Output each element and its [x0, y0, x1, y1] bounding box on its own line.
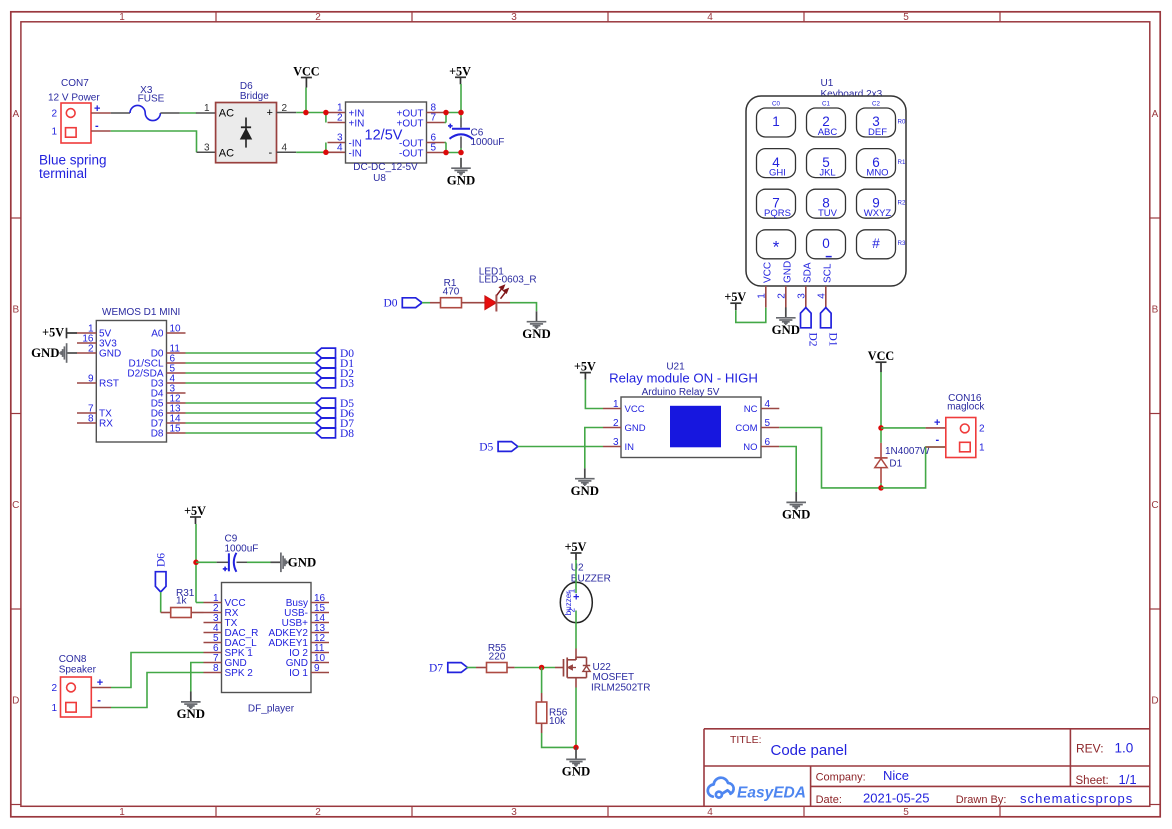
svg-text:DC-DC_12-5V: DC-DC_12-5V	[353, 162, 418, 173]
svg-text:1000uF: 1000uF	[471, 137, 505, 148]
svg-text:2021-05-25: 2021-05-25	[863, 791, 930, 806]
junction dot at source	[573, 745, 579, 751]
key 4	[757, 149, 796, 178]
svg-text:0: 0	[822, 236, 830, 251]
svg-text:+5V: +5V	[574, 360, 596, 374]
svg-text:3: 3	[511, 807, 517, 818]
svg-text:GND: GND	[782, 508, 810, 522]
net port D7 drive	[448, 663, 468, 673]
svg-text:D1: D1	[827, 333, 839, 347]
svg-text:D0: D0	[383, 298, 397, 310]
svg-text:A: A	[12, 109, 19, 120]
wires U8 outputs	[445, 112, 462, 114]
svg-text:NO: NO	[743, 442, 757, 453]
wire gate pulldown R56	[541, 668, 543, 694]
wires WEMOS to ports	[186, 352, 317, 354]
bridge internal diode	[245, 118, 247, 148]
svg-text:WXYZ: WXYZ	[864, 208, 892, 219]
net ports D5-D8	[316, 398, 336, 408]
title block	[704, 728, 1150, 730]
wire relay COM to maglock	[779, 428, 881, 488]
svg-text:2: 2	[777, 293, 788, 299]
net ports D0-D3	[316, 348, 336, 358]
resistor R55 220	[487, 663, 508, 673]
svg-text:R0: R0	[898, 118, 906, 125]
fuse X3	[111, 112, 130, 114]
net port D0 drive	[402, 298, 422, 308]
key 8	[807, 189, 846, 218]
wire bridge pin2 to U8	[296, 112, 327, 114]
svg-text:EasyEDA: EasyEDA	[737, 785, 806, 802]
resistor R31 1k	[171, 608, 192, 618]
svg-text:220: 220	[489, 651, 506, 662]
svg-text:D: D	[1151, 696, 1158, 707]
svg-text:1k: 1k	[176, 596, 188, 607]
svg-text:GND: GND	[447, 173, 475, 187]
svg-text:U2: U2	[571, 562, 584, 573]
wire to CON16 minus	[881, 447, 946, 488]
svg-text:GND: GND	[571, 484, 599, 498]
svg-text:VCC: VCC	[868, 349, 894, 363]
key 2	[807, 108, 846, 137]
svg-text:2: 2	[51, 108, 57, 119]
svg-text:+5V: +5V	[42, 325, 64, 339]
svg-text:10: 10	[170, 323, 182, 334]
svg-text:IRLM2502TR: IRLM2502TR	[591, 682, 650, 693]
svg-text:1: 1	[613, 399, 619, 410]
svg-text:Company:: Company:	[816, 771, 866, 783]
key 0	[807, 230, 846, 259]
wire speaker minus to SPK2	[111, 673, 204, 708]
svg-text:+5V: +5V	[724, 290, 746, 304]
svg-text:3: 3	[204, 143, 210, 154]
svg-text:C0: C0	[772, 100, 780, 107]
svg-text:1N4007W: 1N4007W	[885, 446, 930, 457]
svg-text:2: 2	[88, 343, 94, 354]
key 9	[857, 189, 896, 218]
svg-text:AC: AC	[219, 107, 234, 119]
svg-text:LED-0603_R: LED-0603_R	[479, 275, 537, 286]
resistor R1 470	[441, 298, 462, 308]
svg-text:C: C	[1151, 500, 1158, 511]
svg-text:R3: R3	[898, 240, 906, 247]
svg-text:TUV: TUV	[818, 208, 838, 219]
svg-text:DF_player: DF_player	[248, 703, 295, 714]
svg-text:Arduino Relay 5V: Arduino Relay 5V	[642, 387, 720, 398]
svg-text:1/1: 1/1	[1119, 772, 1137, 787]
svg-text:R2: R2	[898, 200, 906, 207]
svg-text:2: 2	[979, 423, 985, 434]
svg-text:GND: GND	[625, 423, 646, 434]
svg-text:D8: D8	[340, 428, 354, 440]
svg-text:1: 1	[119, 807, 125, 818]
net port D6 drive	[155, 572, 166, 592]
resistor R56 10k	[536, 702, 547, 723]
wire fuse to bridge	[180, 112, 196, 114]
svg-text:JKL: JKL	[819, 167, 835, 178]
wire MOSFET source to ground	[575, 688, 577, 748]
svg-text:VCC: VCC	[762, 262, 773, 283]
svg-text:4: 4	[707, 12, 713, 23]
svg-text:Drawn By:: Drawn By:	[956, 794, 1007, 806]
ground below C6	[460, 158, 462, 168]
svg-text:NC: NC	[744, 404, 758, 415]
svg-text:maglock: maglock	[947, 402, 985, 413]
svg-text:PQRS: PQRS	[764, 208, 791, 219]
svg-text:GND: GND	[288, 556, 316, 570]
svg-text:#: #	[872, 236, 880, 251]
svg-text:-: -	[936, 434, 940, 446]
LED1 LED-0603_R	[485, 296, 496, 309]
svg-text:1: 1	[204, 103, 210, 114]
svg-text:D6: D6	[156, 553, 168, 567]
svg-text:GND: GND	[177, 707, 205, 721]
key *	[757, 230, 796, 259]
svg-text:TITLE:: TITLE:	[730, 734, 762, 746]
svg-text:9: 9	[88, 373, 94, 384]
svg-text:VCC: VCC	[293, 65, 319, 79]
svg-text:1: 1	[568, 588, 577, 593]
wire CON7 pin1 to bridge pin3	[111, 131, 197, 152]
svg-text:15: 15	[170, 423, 182, 434]
ground at keypad	[785, 307, 787, 317]
svg-text:GND: GND	[522, 327, 550, 341]
svg-text:C2: C2	[872, 100, 880, 107]
svg-text:SPK 2: SPK 2	[225, 668, 254, 679]
module WEMOS D1 MINI	[96, 321, 166, 443]
svg-text:470: 470	[443, 286, 460, 297]
svg-text:1: 1	[51, 126, 57, 137]
svg-text:1: 1	[772, 114, 780, 129]
svg-text:10k: 10k	[549, 716, 566, 727]
svg-text:Nice: Nice	[883, 768, 909, 783]
bridge rectifier D6	[216, 103, 277, 163]
svg-text:terminal: terminal	[39, 166, 87, 181]
svg-text:CON7: CON7	[61, 78, 89, 89]
net port D1 at keypad	[821, 308, 832, 328]
svg-text:3: 3	[797, 293, 808, 299]
wire to C9	[196, 561, 217, 563]
capacitor C6 1000uF	[452, 128, 470, 130]
wire bridge pin4 to U8	[296, 151, 327, 153]
svg-text:3: 3	[613, 437, 619, 448]
junction dots maglock net	[878, 425, 884, 431]
svg-text:+5V: +5V	[565, 540, 587, 554]
svg-text:A0: A0	[151, 329, 164, 340]
wire to CON16 plus	[881, 427, 926, 429]
svg-text:GND: GND	[782, 261, 793, 283]
svg-text:-: -	[269, 147, 273, 159]
svg-text:8: 8	[213, 663, 219, 674]
svg-text:RST: RST	[99, 379, 119, 390]
junction dot at C9	[193, 560, 199, 566]
svg-text:Speaker: Speaker	[59, 665, 97, 676]
svg-text:SCL: SCL	[822, 263, 833, 283]
svg-text:GND: GND	[31, 346, 59, 360]
svg-text:1: 1	[979, 442, 985, 453]
svg-text:GND: GND	[562, 765, 590, 779]
net port D2 at keypad	[801, 308, 812, 328]
svg-text:4: 4	[337, 142, 343, 153]
ground at relay	[584, 468, 586, 478]
connector CON16 maglock	[946, 418, 976, 458]
svg-text:RX: RX	[99, 419, 113, 430]
svg-text:DEF: DEF	[868, 127, 887, 138]
svg-text:+: +	[267, 107, 273, 119]
module DF_player	[222, 583, 312, 693]
svg-text:AC: AC	[219, 148, 234, 160]
svg-text:REV:: REV:	[1076, 741, 1104, 755]
svg-text:-IN: -IN	[349, 148, 362, 159]
svg-text:Code panel: Code panel	[771, 742, 848, 759]
wire relay GND pin	[585, 428, 603, 469]
svg-text:-: -	[97, 695, 101, 707]
DC-DC converter U8	[346, 102, 427, 163]
svg-text:12 V Power: 12 V Power	[48, 93, 100, 104]
svg-text:4: 4	[765, 399, 771, 410]
svg-text:4: 4	[817, 293, 828, 299]
net port D5	[498, 442, 518, 452]
svg-text:C: C	[12, 500, 19, 511]
svg-text:Date:: Date:	[816, 794, 842, 806]
svg-text:8: 8	[88, 413, 94, 424]
svg-text:+5V: +5V	[449, 64, 471, 78]
svg-text:R1: R1	[898, 159, 906, 166]
svg-text:12/5V: 12/5V	[365, 128, 403, 144]
pin stubs CON7	[91, 112, 111, 114]
svg-text:9: 9	[314, 663, 320, 674]
ground at relay NO	[795, 492, 797, 502]
ground at WEMOS pin2	[67, 352, 77, 354]
svg-text:GND: GND	[99, 349, 121, 360]
svg-text:ABC: ABC	[818, 127, 838, 138]
svg-text:D7: D7	[429, 662, 443, 674]
svg-text:IO 1: IO 1	[289, 668, 308, 679]
svg-text:WEMOS D1 MINI: WEMOS D1 MINI	[102, 307, 180, 318]
svg-text:SDA: SDA	[802, 262, 813, 283]
svg-text:5: 5	[903, 807, 909, 818]
key 3	[857, 108, 896, 137]
junction dots bridge outputs	[303, 110, 309, 116]
svg-text:D: D	[12, 696, 19, 707]
key 5	[807, 149, 846, 178]
svg-text:IN: IN	[625, 442, 635, 453]
svg-text:U1: U1	[821, 78, 834, 89]
wire relay NO to ground	[779, 447, 796, 493]
bridge output stubs	[277, 112, 297, 114]
key #	[857, 230, 896, 259]
svg-text:D2: D2	[807, 333, 819, 347]
svg-text:-OUT: -OUT	[399, 148, 423, 159]
svg-text:1: 1	[119, 12, 125, 23]
connector CON8 speaker	[61, 677, 92, 717]
wire +5V to DF VCC	[196, 602, 204, 604]
svg-text:FUSE: FUSE	[138, 94, 165, 105]
svg-text:CON8: CON8	[59, 654, 87, 665]
svg-text:5: 5	[765, 418, 771, 429]
keypad bottom pins	[765, 286, 767, 308]
ground after LED1	[536, 311, 538, 321]
diode D1 1N4007W	[880, 428, 882, 443]
svg-text:GHI: GHI	[769, 167, 786, 178]
svg-text:5: 5	[431, 142, 437, 153]
ground at MOSFET	[575, 747, 577, 749]
svg-text:6: 6	[765, 437, 771, 448]
svg-text:1.0: 1.0	[1115, 740, 1134, 755]
svg-text:Bridge: Bridge	[240, 91, 269, 102]
svg-text:2: 2	[315, 807, 321, 818]
junction dot at gate	[539, 665, 545, 671]
svg-text:Sheet:: Sheet:	[1076, 775, 1109, 787]
key 6	[857, 149, 896, 178]
wire speaker plus to SPK1	[111, 653, 204, 688]
MOSFET U22 IRLM2502TR	[555, 667, 563, 669]
svg-text:A: A	[1152, 109, 1159, 120]
wire D6 to R31	[160, 592, 162, 613]
EasyEDA logo	[708, 778, 734, 798]
wire LED to ground	[498, 302, 511, 304]
svg-text:D5: D5	[479, 441, 493, 453]
svg-text:7: 7	[431, 112, 437, 123]
wire DF GND to ground	[191, 663, 204, 692]
svg-text:1: 1	[51, 703, 57, 714]
svg-text:C1: C1	[822, 100, 830, 107]
key 7	[757, 189, 796, 218]
svg-text:+: +	[934, 417, 940, 429]
svg-text:MNO: MNO	[866, 167, 888, 178]
svg-text:5: 5	[903, 12, 909, 23]
svg-text:4: 4	[707, 807, 713, 818]
svg-text:schematicsprops: schematicsprops	[1020, 791, 1133, 806]
svg-text:*: *	[773, 237, 780, 256]
svg-text:D3: D3	[340, 378, 354, 390]
svg-text:2: 2	[337, 112, 343, 123]
svg-text:3: 3	[511, 12, 517, 23]
key 1	[757, 108, 796, 137]
svg-text:VCC: VCC	[625, 404, 645, 415]
svg-text:2: 2	[51, 683, 57, 694]
svg-text:D1: D1	[889, 458, 902, 469]
svg-text:GND: GND	[772, 323, 800, 337]
svg-text:1000uF: 1000uF	[225, 543, 259, 554]
svg-text:1: 1	[757, 293, 768, 299]
svg-text:U8: U8	[373, 173, 386, 184]
svg-text:COM: COM	[735, 423, 757, 434]
svg-text:+IN: +IN	[349, 118, 365, 129]
svg-text:Relay module ON - HIGH: Relay module ON - HIGH	[609, 371, 758, 386]
junction dots C6	[443, 110, 449, 116]
connector CON7 12V power	[61, 103, 91, 143]
svg-text:+5V: +5V	[184, 504, 206, 518]
svg-text:2: 2	[568, 607, 577, 612]
svg-text:B: B	[1152, 305, 1159, 316]
U8 right pin stubs	[427, 112, 445, 114]
capacitor C9 1000uF	[228, 553, 230, 571]
svg-text:2: 2	[613, 418, 619, 429]
svg-text:2: 2	[315, 12, 321, 23]
svg-text:B: B	[12, 305, 19, 316]
ground right of C9	[271, 561, 281, 563]
svg-text:D8: D8	[151, 429, 164, 440]
ground at DF player	[190, 692, 192, 702]
